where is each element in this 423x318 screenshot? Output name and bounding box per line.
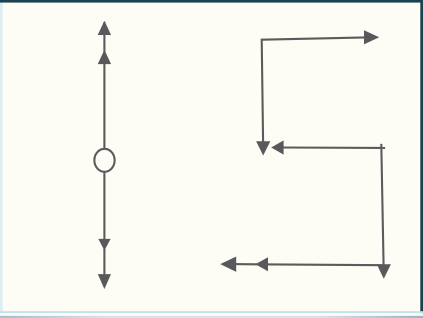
bottom pale-blue rule [0, 311, 423, 313]
wire: left figure upper vertical segment [103, 22, 105, 149]
arrowhead up (top of left figure) [98, 21, 111, 35]
bottom gray-blue band [0, 316, 423, 318]
arrowhead up (second, left figure) [98, 50, 111, 64]
wire: right figure middle horizontal [283, 146, 386, 148]
arrowhead down (end of right figure left vertical) [256, 141, 270, 155]
arrowhead right (top of right figure) [364, 30, 379, 44]
arrowhead left (middle horizontal) [271, 140, 283, 154]
arrowhead down (third, left figure) [98, 239, 110, 251]
top dark border [0, 0, 423, 3]
node circle [94, 149, 114, 172]
wire: right figure bottom horizontal [230, 264, 385, 265]
arrowhead down (bottom of left figure) [98, 274, 111, 289]
wire: left figure lower vertical segment [103, 172, 105, 287]
arrowhead left (end of bottom horizontal) [220, 257, 236, 272]
wire: right figure right vertical [381, 144, 383, 266]
left pale-blue edge [0, 2, 3, 312]
right dark border [420, 0, 423, 314]
wire: right figure left vertical [262, 39, 263, 143]
bottom white gap [0, 313, 423, 316]
arrowhead down (bottom of right vertical) [377, 264, 391, 279]
wire: right figure top horizontal [262, 37, 366, 39]
arrowhead left (mid of bottom horizontal) [255, 257, 268, 271]
